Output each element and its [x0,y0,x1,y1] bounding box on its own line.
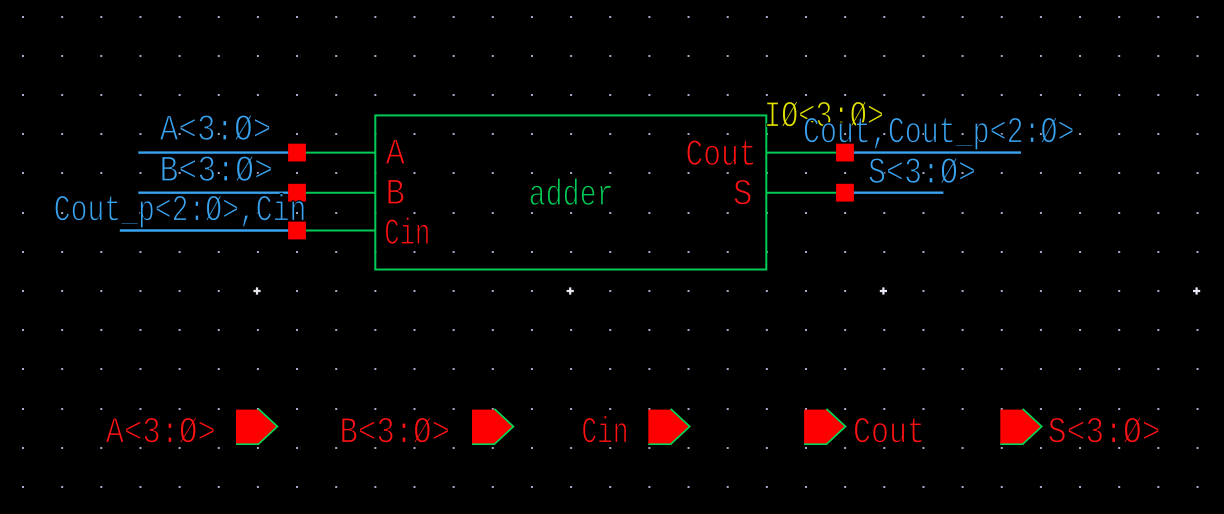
svg-text:B<3:Ø>: B<3:Ø> [340,413,451,455]
svg-text:Cin: Cin [384,214,430,256]
svg-text:Cin: Cin [582,413,629,455]
svg-text:B<3:Ø>: B<3:Ø> [160,151,274,193]
wire net Cout_p<2:0>,Cin (blue segment) [120,229,297,231]
input pin symbol Cin [648,409,689,445]
svg-text:A: A [386,134,406,176]
wire net S<3:0> (blue segment) [845,191,943,193]
output pin symbol Cout [804,409,845,445]
junction square at pin A [288,144,306,162]
input pin symbol A<3:0> [236,409,277,445]
wire B pin stub (green segment) [297,192,375,194]
svg-text:B: B [386,174,406,216]
output pin symbol S<3:0> [1000,409,1041,445]
grid major cross [253,287,260,294]
svg-text:S: S [733,175,753,217]
grid major cross [880,287,887,294]
svg-text:Cout,Cout_p<2:Ø>: Cout,Cout_p<2:Ø> [803,113,1075,155]
svg-text:A<3:Ø>: A<3:Ø> [160,110,271,152]
svg-text:Cout: Cout [686,135,757,177]
svg-text:S<3:Ø>: S<3:Ø> [868,153,976,195]
wire Cout pin stub (green segment) [766,152,845,154]
grid major cross [567,287,574,294]
wire net A<3:0> (blue segment) [138,151,297,153]
junction square at pin Cin [288,222,306,240]
wire net Cout,Cout_p<2:0> (blue segment) [845,151,1021,153]
junction square at pin B [288,184,306,202]
grid major cross [1193,287,1200,294]
wire net B<3:0> (blue segment) [138,191,297,193]
wire Cin pin stub (green segment) [297,230,375,232]
svg-text:adder: adder [529,175,614,217]
wire S pin stub (green segment) [766,192,845,194]
svg-text:Cout: Cout [853,413,925,455]
svg-text:S<3:Ø>: S<3:Ø> [1048,413,1161,455]
junction square at pin Cout [836,144,854,162]
junction square at pin S [836,184,854,202]
input pin symbol B<3:0> [472,409,513,445]
svg-text:A<3:Ø>: A<3:Ø> [106,413,216,455]
svg-text:Cout_p<2:Ø>,Cin: Cout_p<2:Ø>,Cin [54,190,306,232]
instance body rectangle U: adder [375,115,766,269]
wire A pin stub (green segment) [297,152,375,154]
